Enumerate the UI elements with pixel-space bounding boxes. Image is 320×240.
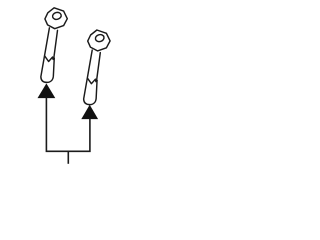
bolt 2 (right) bbox=[84, 30, 110, 105]
arrowhead pointing at bolt 1 bbox=[38, 83, 56, 98]
bolt 1 (left) bbox=[41, 8, 67, 83]
arrowhead pointing at bolt 2 bbox=[81, 105, 98, 119]
bracket wire: left leader, bottom rail, right leader bbox=[46, 98, 90, 152]
wire stem below bracket bbox=[67, 151, 69, 164]
